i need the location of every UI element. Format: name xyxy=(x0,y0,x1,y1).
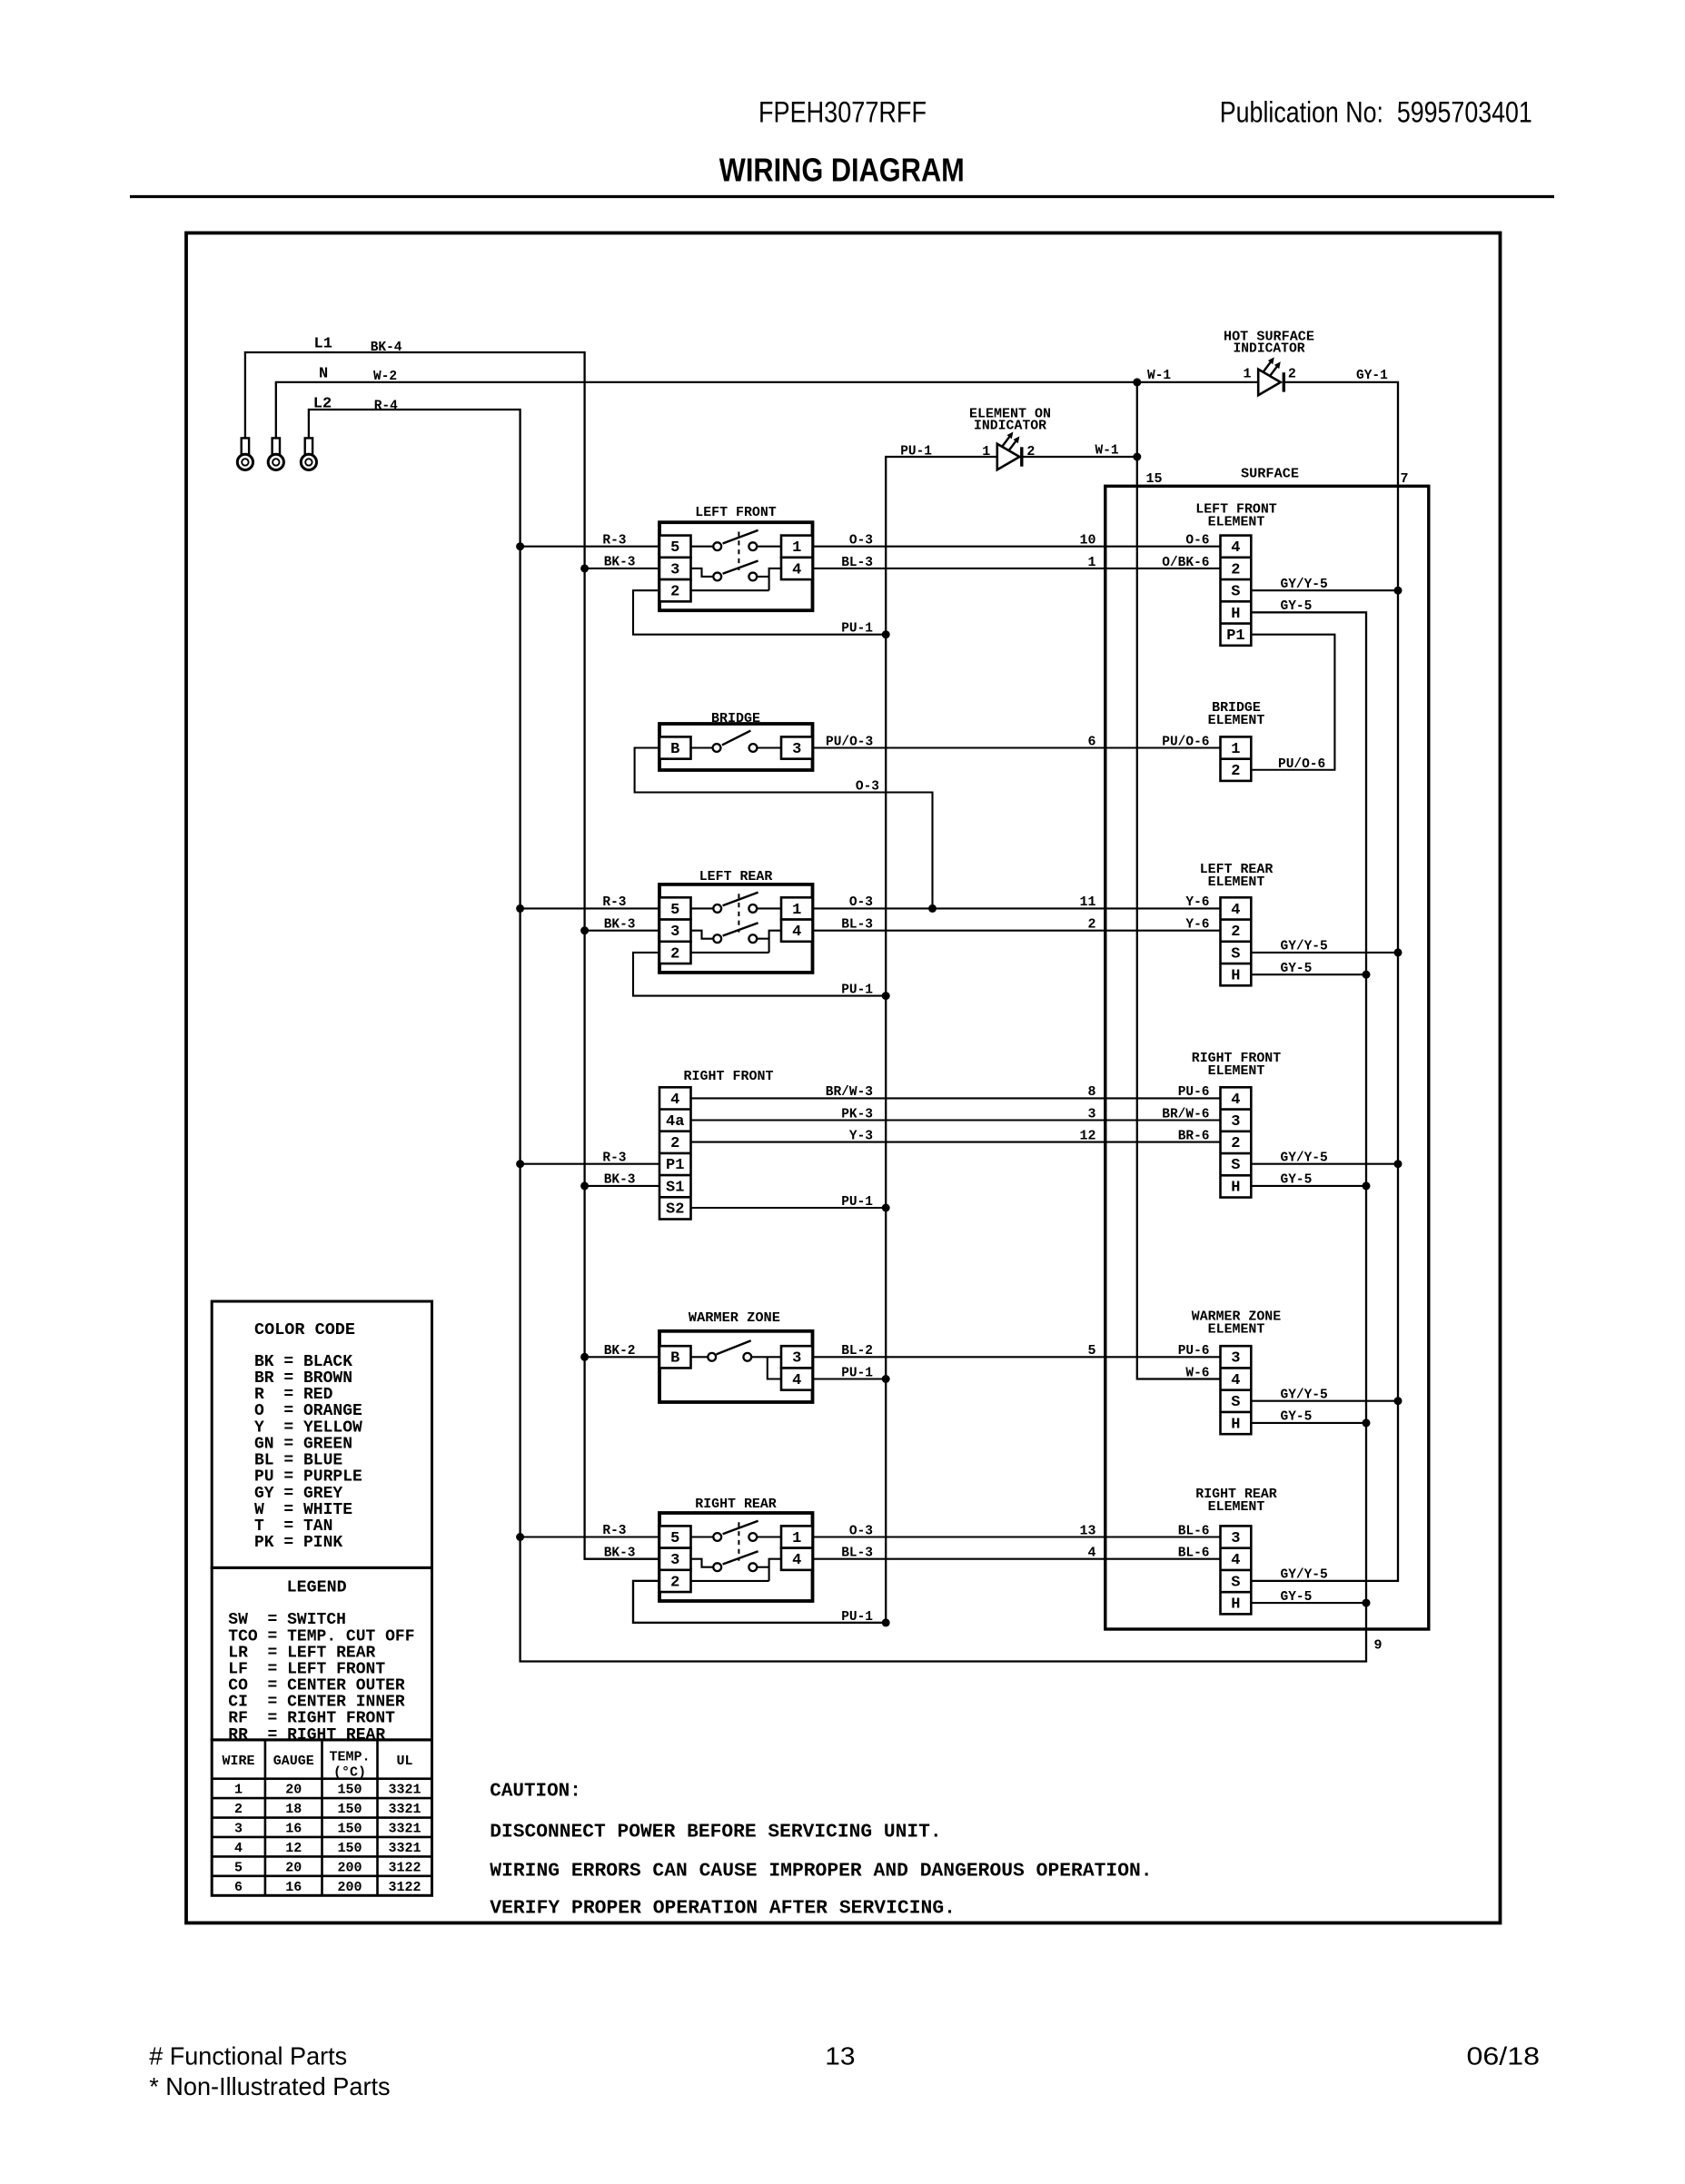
svg-text:P1: P1 xyxy=(1226,628,1244,645)
wire LEFT REAR switch SW-LR pin 2 to PU-1 bus xyxy=(633,953,886,996)
svg-text:Y-3: Y-3 xyxy=(849,1129,873,1143)
svg-text:GY/Y-5: GY/Y-5 xyxy=(1281,1568,1328,1583)
svg-text:2: 2 xyxy=(670,945,679,963)
wire gauge table xyxy=(212,1740,431,1895)
svg-text:5: 5 xyxy=(670,1530,679,1547)
switch BRIDGE xyxy=(659,711,813,770)
svg-text:PU-1: PU-1 xyxy=(841,1610,873,1625)
svg-text:PU/O-6: PU/O-6 xyxy=(1278,757,1325,772)
svg-text:BL-3: BL-3 xyxy=(841,556,873,570)
svg-text:O-6: O-6 xyxy=(1185,534,1209,548)
svg-text:PU-1: PU-1 xyxy=(841,622,873,637)
junction bus tap xyxy=(580,1181,589,1190)
wire net GY-1 : hot-surface cathode across, down GY/Y-5 riser, into right rear S xyxy=(1251,382,1398,1581)
svg-text:Y-6: Y-6 xyxy=(1185,895,1209,910)
svg-text:GY-5: GY-5 xyxy=(1281,1590,1313,1605)
junction GY-5 riser xyxy=(1363,971,1371,979)
svg-text:2: 2 xyxy=(1087,916,1095,932)
svg-text:BL-6: BL-6 xyxy=(1178,1547,1210,1561)
svg-text:WARMER ZONE: WARMER ZONE xyxy=(689,1310,780,1326)
svg-text:BL = BLUE: BL = BLUE xyxy=(254,1452,342,1470)
svg-text:B: B xyxy=(670,1350,679,1368)
svg-text:R-4: R-4 xyxy=(374,400,398,414)
junction PU-1 bus warmer zone xyxy=(882,1375,890,1383)
wire R-3 to right rear pin5 xyxy=(520,1536,659,1537)
svg-text:12: 12 xyxy=(285,1841,302,1856)
junction bus tap xyxy=(580,926,589,934)
svg-text:1: 1 xyxy=(792,902,801,919)
element on indicator LED D2 xyxy=(997,432,1022,470)
svg-text:PK = PINK: PK = PINK xyxy=(254,1534,342,1552)
svg-text:SURFACE: SURFACE xyxy=(1241,466,1299,481)
svg-text:GN = GREEN: GN = GREEN xyxy=(254,1435,352,1453)
svg-text:ELEMENT: ELEMENT xyxy=(1208,515,1265,530)
wire O-3/O-6 left front pin1 to element xyxy=(813,546,1221,548)
wire BL-3/BL-6 right rear pin4 to element xyxy=(813,1558,1221,1560)
svg-text:CO = CENTER OUTER: CO = CENTER OUTER xyxy=(228,1677,405,1695)
wire BL-2/PU-6 warmer zone to element xyxy=(813,1356,1221,1358)
element BRIDGE ELEMENT xyxy=(1208,700,1265,781)
svg-text:BK-3: BK-3 xyxy=(604,917,636,932)
svg-text:BR = BROWN: BR = BROWN xyxy=(254,1369,352,1388)
svg-text:2: 2 xyxy=(1231,1135,1240,1152)
svg-text:4a: 4a xyxy=(666,1113,684,1131)
junction GY/Y-5 riser xyxy=(1394,587,1403,595)
svg-text:O-3: O-3 xyxy=(849,1524,873,1538)
svg-text:3321: 3321 xyxy=(388,1802,421,1817)
svg-text:150: 150 xyxy=(337,1822,362,1837)
svg-text:20: 20 xyxy=(285,1860,302,1875)
svg-text:R = RED: R = RED xyxy=(254,1386,333,1404)
svg-text:ELEMENT: ELEMENT xyxy=(1208,1322,1265,1338)
svg-text:1: 1 xyxy=(982,444,990,460)
svg-text:O-3: O-3 xyxy=(849,534,873,548)
wire net L1/BK-4 : lug up, across, down BK bus, into right rear pin 3 xyxy=(245,352,659,1559)
wire BK-3 to left front pin3 xyxy=(585,568,659,569)
svg-text:ELEMENT: ELEMENT xyxy=(1208,1063,1265,1079)
wire BL-3/OBK-6 left front pin4 to element xyxy=(813,568,1221,569)
svg-text:WIRING ERRORS CAN CAUSE IMPROP: WIRING ERRORS CAN CAUSE IMPROPER AND DAN… xyxy=(490,1860,1152,1882)
svg-text:2: 2 xyxy=(1026,444,1035,460)
wire O-3/Y-6 left rear pin1 to element xyxy=(813,907,1221,909)
wire net L2/R-4 : lug up, across, down R bus, bottom rail, up GY-5 riser, into left front H xyxy=(309,410,1366,1662)
svg-text:GY/Y-5: GY/Y-5 xyxy=(1281,578,1328,592)
svg-text:ELEMENT: ELEMENT xyxy=(1208,875,1265,890)
svg-text:H: H xyxy=(1231,606,1240,623)
svg-text:4: 4 xyxy=(1231,1092,1240,1109)
wire GY-5 spur xyxy=(1251,611,1366,613)
svg-text:PU = PURPLE: PU = PURPLE xyxy=(254,1468,362,1487)
svg-text:LEFT FRONT: LEFT FRONT xyxy=(695,505,777,520)
svg-text:PK-3: PK-3 xyxy=(841,1107,873,1122)
svg-text:GY/Y-5: GY/Y-5 xyxy=(1281,1151,1328,1166)
svg-text:2: 2 xyxy=(670,1135,679,1152)
svg-text:ELEMENT: ELEMENT xyxy=(1208,713,1265,728)
svg-text:H: H xyxy=(1231,1596,1240,1614)
wire RIGHT REAR switch SW-RR pin 2 to PU-1 bus xyxy=(633,1581,886,1623)
svg-text:5: 5 xyxy=(670,902,679,919)
svg-text:GY = GREY: GY = GREY xyxy=(254,1485,342,1503)
svg-text:R-3: R-3 xyxy=(602,533,626,548)
junction PU-1 bus right front xyxy=(882,1204,890,1212)
svg-text:BL-6: BL-6 xyxy=(1178,1524,1210,1538)
wire PK-3 right front 4a to element xyxy=(691,1119,1221,1121)
svg-text:PU-6: PU-6 xyxy=(1178,1344,1210,1359)
svg-text:INDICATOR: INDICATOR xyxy=(1234,341,1305,356)
wire PU/O-3 bridge to element xyxy=(813,746,1221,748)
svg-text:5: 5 xyxy=(1087,1343,1095,1359)
svg-text:13: 13 xyxy=(1079,1523,1095,1538)
svg-text:O = ORANGE: O = ORANGE xyxy=(254,1402,362,1420)
switch LEFT FRONT switch SW-LF xyxy=(659,505,813,610)
svg-text:BL-3: BL-3 xyxy=(841,917,873,932)
junction bus tap xyxy=(580,1353,589,1361)
svg-text:BK-3: BK-3 xyxy=(604,556,636,570)
svg-text:H: H xyxy=(1231,1416,1240,1433)
color code box xyxy=(212,1301,431,1567)
svg-text:3: 3 xyxy=(792,741,801,758)
svg-text:WIRING DIAGRAM: WIRING DIAGRAM xyxy=(719,152,965,189)
wire GY/Y-5 spur xyxy=(1251,952,1398,954)
svg-text:PU-1: PU-1 xyxy=(841,983,873,998)
terminal lug N xyxy=(268,438,283,469)
surface unit enclosure box xyxy=(1105,486,1429,1629)
wire GY/Y-5 spur xyxy=(1251,589,1398,591)
svg-text:LEFT REAR: LEFT REAR xyxy=(699,869,773,884)
wire Y-3 right front 2 to element xyxy=(691,1141,1221,1143)
junction GY-5 riser xyxy=(1363,1418,1371,1427)
wire O-3/BL-6 right rear pin1 to element xyxy=(813,1536,1221,1537)
wire GY-5 spur xyxy=(1251,1422,1366,1424)
svg-text:BR/W-6: BR/W-6 xyxy=(1162,1107,1209,1122)
svg-text:6: 6 xyxy=(234,1880,243,1895)
svg-text:RR = RIGHT REAR: RR = RIGHT REAR xyxy=(228,1726,385,1744)
svg-text:12: 12 xyxy=(1079,1128,1095,1143)
svg-text:5: 5 xyxy=(234,1860,243,1875)
svg-text:2: 2 xyxy=(670,1574,679,1591)
svg-text:RIGHT FRONT: RIGHT FRONT xyxy=(684,1069,774,1084)
svg-text:UL: UL xyxy=(396,1754,412,1769)
svg-text:BR/W-3: BR/W-3 xyxy=(826,1085,873,1100)
svg-text:3: 3 xyxy=(670,561,679,578)
control RIGHT FRONT connector xyxy=(659,1069,774,1219)
svg-text:O/BK-6: O/BK-6 xyxy=(1162,556,1209,570)
svg-text:3122: 3122 xyxy=(388,1880,421,1895)
svg-text:(°C): (°C) xyxy=(333,1765,366,1781)
svg-text:RIGHT REAR: RIGHT REAR xyxy=(695,1497,777,1512)
svg-text:4: 4 xyxy=(792,1552,801,1569)
wire R-3 to left front pin5 xyxy=(520,546,659,548)
svg-text:LEGEND: LEGEND xyxy=(287,1579,347,1597)
wire GY-5 spur xyxy=(1251,1602,1366,1604)
svg-text:7: 7 xyxy=(1401,471,1409,487)
svg-text:16: 16 xyxy=(285,1822,302,1837)
element LEFT REAR ELEMENT xyxy=(1200,862,1274,985)
svg-text:CI = CENTER INNER: CI = CENTER INNER xyxy=(228,1694,405,1712)
svg-text:DISCONNECT POWER BEFORE SERVIC: DISCONNECT POWER BEFORE SERVICING UNIT. xyxy=(490,1822,941,1843)
wire BR/W-3 right front 4 to element xyxy=(691,1097,1221,1099)
svg-text:3321: 3321 xyxy=(388,1822,421,1837)
svg-text:3321: 3321 xyxy=(388,1783,421,1798)
svg-text:GY-5: GY-5 xyxy=(1281,599,1313,614)
svg-text:200: 200 xyxy=(337,1880,362,1895)
svg-text:4: 4 xyxy=(1231,902,1240,919)
junction GY/Y-5 riser xyxy=(1394,948,1403,956)
svg-text:4: 4 xyxy=(1231,539,1240,557)
svg-text:20: 20 xyxy=(285,1783,302,1798)
svg-text:2: 2 xyxy=(1231,561,1240,578)
junction O-3 tap on left rear pin 1 wire xyxy=(928,904,937,913)
svg-text:P1: P1 xyxy=(666,1157,684,1174)
svg-text:T = TAN: T = TAN xyxy=(254,1517,332,1536)
junction PU-1 bus at y=698.7 xyxy=(882,630,890,638)
svg-text:BK-3: BK-3 xyxy=(604,1546,636,1560)
svg-text:BL-2: BL-2 xyxy=(841,1344,873,1359)
svg-text:18: 18 xyxy=(285,1802,302,1817)
switch WARMER ZONE xyxy=(659,1310,813,1402)
junction W-1 at element-on row xyxy=(1133,453,1141,461)
svg-text:4: 4 xyxy=(234,1841,243,1856)
svg-text:4: 4 xyxy=(792,561,801,578)
terminal lug L1 xyxy=(237,438,253,469)
svg-text:1: 1 xyxy=(792,539,801,557)
svg-text:1: 1 xyxy=(234,1783,243,1798)
wire BK-3 to left rear pin3 xyxy=(585,930,659,932)
hot surface indicator LED D1 xyxy=(1258,357,1284,395)
svg-text:4: 4 xyxy=(670,1092,679,1109)
wire net PU-1 : element-on anode, down PU bus, into right rear pin 2 xyxy=(633,457,997,1623)
junction bus tap xyxy=(516,904,524,913)
svg-text:# Functional Parts: # Functional Parts xyxy=(149,2042,347,2070)
svg-text:150: 150 xyxy=(337,1841,362,1856)
wire BRIDGE pin B loop down to O-3 tap xyxy=(635,748,933,909)
junction PU-1 bus at y=1786.9 xyxy=(882,1618,890,1626)
svg-text:B: B xyxy=(670,741,679,758)
svg-text:S: S xyxy=(1231,1394,1240,1411)
svg-text:GY-5: GY-5 xyxy=(1281,1173,1313,1188)
svg-text:5: 5 xyxy=(670,539,679,557)
svg-text:COLOR CODE: COLOR CODE xyxy=(254,1321,355,1339)
wire GY/Y-5 spur xyxy=(1251,1400,1398,1402)
svg-text:PU/O-3: PU/O-3 xyxy=(826,736,873,750)
wire BK-3 to right front S1 xyxy=(585,1185,659,1187)
svg-text:150: 150 xyxy=(337,1783,362,1798)
junction GY-5 riser xyxy=(1363,1599,1371,1607)
svg-text:H: H xyxy=(1231,1179,1240,1196)
svg-text:2: 2 xyxy=(1231,763,1240,780)
wire net N/W-2 : lug up, across to hot-surface indicator anode xyxy=(276,382,1258,439)
svg-text:R-3: R-3 xyxy=(602,1151,626,1165)
wire net W riser (connector pin 15) down to warmer zone element pin 4 xyxy=(1137,382,1221,1379)
junction bus tap xyxy=(516,1533,524,1541)
svg-text:SW = SWITCH: SW = SWITCH xyxy=(228,1611,346,1629)
svg-text:S: S xyxy=(1231,1157,1240,1174)
svg-text:Publication No: 5995703401: Publication No: 5995703401 xyxy=(1220,96,1532,129)
element RIGHT FRONT ELEMENT xyxy=(1192,1051,1281,1198)
svg-text:Y = YELLOW: Y = YELLOW xyxy=(254,1418,362,1437)
svg-text:BK-2: BK-2 xyxy=(604,1344,636,1359)
svg-text:S2: S2 xyxy=(666,1201,684,1218)
svg-text:GY-5: GY-5 xyxy=(1281,1410,1313,1425)
svg-text:LF = LEFT FRONT: LF = LEFT FRONT xyxy=(228,1660,385,1678)
svg-text:200: 200 xyxy=(337,1860,362,1875)
svg-text:1: 1 xyxy=(1243,367,1251,382)
wire LEFT FRONT switch SW-LF pin 2 to PU-1 bus xyxy=(633,590,886,635)
svg-text:S: S xyxy=(1231,584,1240,601)
svg-text:PU-1: PU-1 xyxy=(841,1367,873,1381)
svg-text:4: 4 xyxy=(1087,1546,1095,1561)
svg-text:N: N xyxy=(319,365,328,382)
wire R-3 to left rear pin5 xyxy=(520,907,659,909)
svg-text:S: S xyxy=(1231,945,1240,963)
svg-text:2: 2 xyxy=(1231,924,1240,941)
svg-text:VERIFY PROPER OPERATION AFTER: VERIFY PROPER OPERATION AFTER SERVICING. xyxy=(490,1897,956,1919)
svg-text:Y-6: Y-6 xyxy=(1185,917,1209,932)
wire GY/Y-5 spur xyxy=(1251,1163,1398,1165)
element LEFT FRONT ELEMENT xyxy=(1195,501,1277,645)
svg-text:BK = BLACK: BK = BLACK xyxy=(254,1353,352,1371)
svg-text:TCO = TEMP. CUT OFF: TCO = TEMP. CUT OFF xyxy=(228,1627,414,1645)
svg-text:S1: S1 xyxy=(666,1179,684,1196)
junction GY/Y-5 riser xyxy=(1394,1397,1403,1405)
svg-text:3: 3 xyxy=(1231,1530,1240,1547)
svg-text:W-6: W-6 xyxy=(1185,1366,1209,1380)
svg-text:15: 15 xyxy=(1146,471,1163,487)
svg-text:PU/O-6: PU/O-6 xyxy=(1162,735,1209,749)
svg-text:O-3: O-3 xyxy=(849,895,873,910)
svg-text:1: 1 xyxy=(792,1530,801,1547)
svg-text:INDICATOR: INDICATOR xyxy=(974,419,1046,434)
svg-text:PU-1: PU-1 xyxy=(900,445,932,460)
svg-text:GY/Y-5: GY/Y-5 xyxy=(1281,1388,1328,1403)
svg-text:GAUGE: GAUGE xyxy=(273,1754,314,1769)
wire GY-5 spur xyxy=(1251,1185,1366,1187)
wire WARMER ZONE pin 4 PU-1 to bus xyxy=(813,1378,887,1379)
svg-text:3: 3 xyxy=(670,1552,679,1569)
svg-text:10: 10 xyxy=(1079,533,1095,548)
svg-text:H: H xyxy=(1231,968,1240,985)
svg-text:PU-6: PU-6 xyxy=(1178,1085,1210,1100)
junction bus tap xyxy=(580,564,589,572)
svg-text:BR-6: BR-6 xyxy=(1178,1129,1210,1143)
svg-text:150: 150 xyxy=(337,1802,362,1817)
terminal lug L2 xyxy=(301,438,316,469)
junction GY/Y-5 riser xyxy=(1394,1160,1403,1168)
svg-text:CAUTION:: CAUTION: xyxy=(490,1781,581,1803)
svg-text:FPEH3077RFF: FPEH3077RFF xyxy=(758,96,927,129)
svg-text:9: 9 xyxy=(1374,1637,1383,1653)
wire BL-3/Y-6 left rear pin4 to element xyxy=(813,930,1221,932)
svg-text:11: 11 xyxy=(1079,894,1095,910)
svg-text:16: 16 xyxy=(285,1880,302,1895)
svg-text:2: 2 xyxy=(1288,367,1296,382)
junction PU-1 bus at y=1096.6 xyxy=(882,992,890,1000)
svg-text:8: 8 xyxy=(1087,1084,1095,1100)
svg-text:4: 4 xyxy=(792,924,801,941)
svg-text:BK-3: BK-3 xyxy=(604,1173,636,1188)
svg-text:2: 2 xyxy=(234,1802,243,1817)
wire right front S2 PU-1 to bus xyxy=(691,1207,887,1209)
wire P1 to bridge element pin 2 (PU/O-6) xyxy=(1251,635,1334,770)
wire GY-5 spur xyxy=(1251,973,1366,975)
svg-text:W = WHITE: W = WHITE xyxy=(254,1501,352,1519)
svg-text:06/18: 06/18 xyxy=(1467,2042,1541,2070)
svg-text:3: 3 xyxy=(234,1822,243,1837)
junction GY-5 riser xyxy=(1363,1181,1371,1190)
svg-text:1: 1 xyxy=(1087,555,1095,570)
legend box xyxy=(212,1567,431,1740)
title underline rule xyxy=(130,195,1554,198)
svg-text:2: 2 xyxy=(670,584,679,601)
junction W-1/W-2 at hot surface row xyxy=(1133,378,1141,386)
svg-text:3: 3 xyxy=(1231,1113,1240,1131)
switch RIGHT REAR switch SW-RR xyxy=(659,1497,813,1601)
svg-text:BRIDGE: BRIDGE xyxy=(711,711,760,726)
svg-text:W-1: W-1 xyxy=(1147,369,1171,383)
outer border frame xyxy=(186,233,1501,1923)
svg-text:O-3: O-3 xyxy=(856,780,879,795)
element RIGHT REAR ELEMENT xyxy=(1195,1487,1277,1615)
svg-text:TEMP.: TEMP. xyxy=(329,1750,370,1765)
element WARMER ZONE ELEMENT xyxy=(1192,1309,1281,1434)
svg-text:3: 3 xyxy=(670,924,679,941)
svg-text:GY-1: GY-1 xyxy=(1356,369,1388,383)
svg-text:3: 3 xyxy=(792,1350,801,1368)
svg-text:4: 4 xyxy=(792,1372,801,1389)
svg-text:L1: L1 xyxy=(314,336,332,353)
svg-text:W-1: W-1 xyxy=(1095,443,1119,458)
svg-text:3122: 3122 xyxy=(388,1860,421,1875)
switch LEFT REAR switch SW-LR xyxy=(659,869,813,973)
svg-text:GY/Y-5: GY/Y-5 xyxy=(1281,940,1328,954)
svg-text:3: 3 xyxy=(1087,1106,1095,1122)
svg-text:R-3: R-3 xyxy=(602,1524,626,1538)
svg-text:LR = LEFT REAR: LR = LEFT REAR xyxy=(228,1644,375,1662)
svg-text:WIRE: WIRE xyxy=(222,1754,254,1769)
svg-text:PU-1: PU-1 xyxy=(841,1195,873,1210)
svg-text:ELEMENT: ELEMENT xyxy=(1208,1499,1265,1515)
svg-text:GY-5: GY-5 xyxy=(1281,962,1313,976)
svg-text:1: 1 xyxy=(1231,741,1240,758)
svg-text:13: 13 xyxy=(825,2042,855,2070)
svg-text:4: 4 xyxy=(1231,1372,1240,1389)
wire BK-2 to warmer zone B xyxy=(585,1356,659,1358)
junction bus tap xyxy=(516,542,524,550)
svg-text:BL-3: BL-3 xyxy=(841,1547,873,1561)
svg-text:RF = RIGHT FRONT: RF = RIGHT FRONT xyxy=(228,1710,395,1728)
junction bus tap xyxy=(516,1160,524,1168)
svg-text:3321: 3321 xyxy=(388,1841,421,1856)
svg-text:S: S xyxy=(1231,1574,1240,1591)
wire R-3 to right front P1 xyxy=(520,1163,659,1165)
svg-text:4: 4 xyxy=(1231,1552,1240,1569)
svg-text:3: 3 xyxy=(1231,1350,1240,1368)
wire net W-1 : element-on cathode to W riser junction xyxy=(1022,456,1137,458)
svg-text:6: 6 xyxy=(1087,734,1095,749)
svg-text:* Non-Illustrated Parts: * Non-Illustrated Parts xyxy=(149,2072,390,2100)
svg-text:R-3: R-3 xyxy=(602,895,626,910)
